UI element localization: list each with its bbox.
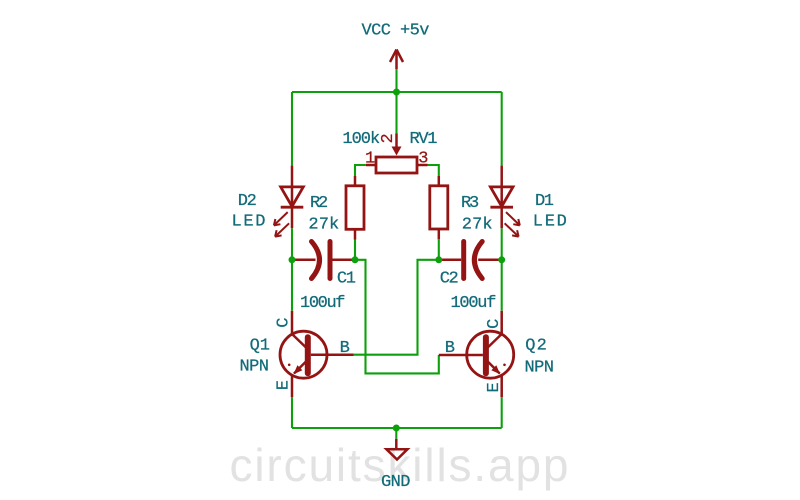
junction VCC [393,89,400,96]
junction C1 left [289,256,296,263]
wire top rail VCC [292,91,502,93]
svg-text:Q1: Q1 [250,337,270,356]
wire bottom rail [292,427,502,429]
svg-text:E: E [485,382,504,392]
svg-text:100k: 100k [342,130,380,149]
svg-text:GND: GND [381,473,411,492]
capacitor C1 [292,242,355,279]
svg-text:C: C [275,318,294,328]
svg-text:27k: 27k [308,216,339,235]
transistor Q2 [439,311,514,397]
junction C1 right [352,256,359,263]
potentiometer RV1 [366,133,428,173]
svg-text:R2: R2 [310,194,328,213]
wire GND stub [395,428,397,439]
junction GND [393,425,400,432]
svg-text:LED: LED [533,213,567,232]
svg-text:LED: LED [232,213,266,232]
svg-text:100uf: 100uf [300,294,346,313]
wire RV1 pin1 to R2 [355,165,366,176]
wire right rail mid [501,228,503,311]
junction C2 left [435,256,442,263]
svg-text:E: E [275,380,294,390]
wire R3 bottom [438,239,440,259]
junction C2 right [498,256,505,263]
svg-text:D2: D2 [238,192,257,211]
svg-text:1: 1 [365,150,375,169]
wire right rail lower [501,397,503,428]
svg-text:RV1: RV1 [410,130,438,149]
svg-text:Q2: Q2 [525,337,547,356]
ground symbol [386,439,407,460]
wire R2 bottom [354,240,356,260]
svg-text:C2: C2 [440,270,459,289]
resistor R3 [430,176,448,239]
svg-text:2: 2 [379,133,398,143]
svg-text:VCC +5v: VCC +5v [362,22,430,41]
capacitor C2 [439,242,502,279]
svg-text:27k: 27k [462,216,493,235]
svg-text:D1: D1 [535,192,554,211]
wire left rail lower [291,397,293,428]
wire RV1 pin3 to R3 [428,165,439,176]
wire Q1 base to C2 left [354,260,439,355]
svg-text:C: C [485,319,504,329]
LED D1 [490,166,519,237]
wire RV1 wiper [395,92,397,133]
svg-text:B: B [445,339,455,358]
svg-text:R3: R3 [461,194,479,213]
svg-text:NPN: NPN [525,359,555,378]
wire left rail mid [291,228,293,311]
svg-text:NPN: NPN [240,358,270,377]
power symbol VCC [390,50,403,70]
svg-text:100uf: 100uf [451,294,497,313]
transistor Q1 [280,311,354,397]
resistor R2 [346,176,364,240]
wire C1 right to Q2 base [355,260,439,374]
wire left rail upper [291,92,293,166]
wire VCC stub [395,69,397,92]
wire right rail upper [501,92,503,166]
svg-text:3: 3 [418,150,428,169]
svg-text:C1: C1 [337,270,356,289]
svg-text:B: B [340,339,350,358]
LED D2 [274,166,303,237]
